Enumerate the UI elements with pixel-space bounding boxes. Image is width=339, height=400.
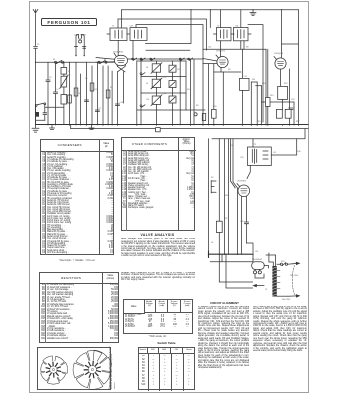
svg-text:S9: S9: [211, 177, 213, 179]
resistor R20: [276, 109, 282, 118]
wire v-108: [107, 66, 109, 125]
resistor R6: [106, 90, 110, 98]
svg-text:R6: R6: [196, 105, 198, 107]
svg-text:C7: C7: [99, 108, 101, 110]
capacitor C3: [43, 113, 47, 115]
wire V1 output: [128, 58, 203, 60]
wire bus to T-D: [240, 10, 242, 28]
ground main: [32, 125, 39, 132]
ground top: [250, 10, 256, 16]
wire band h107: [45, 106, 64, 108]
resistor R18: [216, 221, 222, 232]
wire v-180: [179, 60, 181, 125]
wire T-A to V1: [117, 41, 119, 56]
wire v-214: [213, 64, 215, 125]
wire v-203 low: [202, 59, 204, 125]
svg-text:V5 6X5GT: V5 6X5GT: [252, 259, 263, 261]
label group schematic refs: [37, 26, 300, 302]
mains plug arrow top: [293, 262, 300, 264]
capacitor C19: [245, 222, 249, 224]
switch S4: [132, 58, 137, 60]
coil L8: [151, 63, 162, 74]
wire v-261: [261, 86, 263, 125]
capacitor C10: [116, 104, 120, 106]
wire osc rail2: [140, 60, 142, 125]
wire v-295: [293, 102, 295, 125]
switch S5c: [140, 105, 145, 107]
svg-text:C2: C2: [49, 77, 51, 79]
coil L3 mid: [60, 74, 68, 88]
switch S8: [188, 58, 193, 60]
svg-text:V1 6K8GT: V1 6K8GT: [113, 52, 124, 54]
wire v-224: [222, 72, 224, 125]
fans caption (rotated): [109, 346, 116, 389]
wire v-190: [190, 60, 192, 125]
svg-text:R14: R14: [284, 83, 287, 85]
wire v-69: [69, 62, 71, 125]
svg-text:C16: C16: [262, 83, 265, 85]
wire left drop: [35, 62, 37, 125]
wire v-242: [241, 49, 243, 125]
wire osc h110: [137, 109, 205, 111]
wire v-97: [96, 62, 98, 125]
switch S9 mains: [277, 263, 293, 266]
wire speaker bus: [209, 253, 254, 255]
svg-text:R1: R1: [95, 89, 97, 91]
switch S1: [55, 60, 64, 63]
coil L3: [68, 95, 72, 103]
svg-text:L10: L10: [146, 99, 149, 101]
coil L9: [151, 78, 162, 89]
svg-text:R15: R15: [257, 121, 260, 123]
svg-text:C29: C29: [130, 26, 133, 28]
tuning indicator jack: [74, 35, 85, 57]
valve V1 frequency changer: [114, 53, 128, 66]
wire v-231 diag: [231, 139, 236, 188]
wire osc h76: [141, 76, 186, 78]
wire trans bottom: [277, 295, 288, 297]
main grid bus: [36, 61, 115, 63]
footnote under condensers: [40, 260, 114, 262]
resistor R4: [90, 83, 94, 91]
valve V4 output: [237, 184, 250, 197]
wire v-48: [46, 62, 50, 125]
wire v-123: [123, 72, 125, 103]
wire osc left rail: [136, 61, 138, 125]
svg-text:R9: R9: [228, 69, 230, 71]
switch S2: [98, 60, 107, 63]
wire v-103: [102, 66, 104, 125]
wire v-208: [208, 64, 210, 125]
wire trans top: [266, 253, 276, 266]
wire osc h61: [137, 60, 186, 62]
svg-text:C39: C39: [240, 221, 243, 223]
wire grid line: [146, 49, 190, 51]
top HT bus: [122, 9, 299, 11]
wire h-85: [251, 81, 257, 83]
wire HT right-top: [282, 10, 299, 125]
trimmer C27: [169, 96, 176, 103]
wire V2 cathode: [214, 68, 241, 73]
circuit alignment heading: [209, 301, 240, 305]
wire heater 1: [219, 254, 252, 282]
svg-text:R22: R22: [224, 218, 227, 220]
svg-text:200-220V: 200-220V: [282, 299, 291, 301]
wire v-290: [289, 69, 291, 125]
wire screen line: [203, 48, 266, 50]
svg-text:C36: C36: [297, 151, 300, 153]
svg-text:V4 6V6G: V4 6V6G: [237, 181, 246, 183]
wire v-256: [256, 82, 258, 125]
svg-text:C4: C4: [78, 93, 80, 95]
svg-text:T2: T2: [217, 26, 219, 28]
ground g2: [50, 125, 55, 130]
wire rect to winding: [255, 266, 269, 279]
coil L10: [151, 95, 162, 106]
svg-text:T4: T4: [265, 289, 267, 291]
switch table heading: [138, 341, 195, 345]
capacitor C20: [289, 108, 293, 110]
svg-text:CALL GATE: CALL GATE: [74, 33, 86, 36]
valve base diagram right: [73, 350, 112, 389]
wire v-80: [80, 74, 82, 125]
wire bus to V3: [281, 10, 283, 58]
svg-text:C10: C10: [120, 102, 123, 104]
wire T2 right: [271, 139, 296, 155]
wire bus drop to T-A: [118, 10, 122, 28]
coil L2: [61, 62, 67, 74]
svg-text:L3: L3: [68, 71, 70, 73]
other components table: [121, 137, 196, 231]
wire T2 to V4: [247, 166, 250, 179]
resistors table: [39, 272, 118, 343]
wire band link: [36, 105, 45, 125]
wire v-253 top: [252, 139, 254, 147]
wire L drop: [210, 254, 253, 262]
svg-text:240-250V: 240-250V: [290, 275, 299, 277]
coil L4 low: [61, 87, 67, 125]
wire feedback: [146, 10, 192, 44]
switch table: [138, 347, 195, 390]
svg-text:C8: C8: [177, 69, 179, 71]
wire HT drop: [118, 10, 220, 50]
speaker terminal: [208, 251, 210, 257]
svg-text:R17: R17: [296, 121, 299, 123]
wire v-172: [172, 61, 174, 125]
wire aerial lead-in: [35, 14, 37, 46]
mains plug arrow bottom: [288, 295, 299, 297]
wire v-253 mid: [252, 254, 254, 262]
wire h-102: [262, 101, 294, 103]
wire V2 grid diagonals: [203, 59, 217, 64]
wire r18 down: [218, 233, 220, 255]
wire v-266: [265, 49, 267, 125]
svg-text:C20: C20: [213, 106, 216, 108]
capacitor C1: [34, 47, 38, 49]
wire T-D down: [241, 41, 244, 50]
svg-text:C1: C1: [37, 44, 39, 46]
trimmer C25: [169, 65, 176, 72]
earth return bus: [71, 128, 308, 130]
IF transformer box D: [234, 28, 252, 41]
wire v-250: [250, 82, 252, 125]
rectifier V5: [252, 262, 265, 274]
coupling block C16: [240, 78, 250, 90]
valve V3 detector: [274, 57, 286, 70]
wave band bracket: [211, 181, 216, 194]
wire v-268: [267, 49, 269, 125]
svg-text:R2: R2: [110, 87, 112, 89]
wire v-194: [193, 60, 195, 125]
switch S6: [150, 58, 155, 60]
wire AVC right: [248, 25, 263, 122]
title box FERGUSON 101: [41, 18, 97, 27]
wire v-76: [75, 62, 77, 125]
wire osc h93: [141, 92, 186, 94]
svg-text:C35: C35: [240, 157, 243, 159]
resistor R21: [285, 109, 291, 118]
mains lead dashed: [292, 266, 294, 295]
svg-text:R4: R4: [187, 89, 189, 91]
valve table footnote: [123, 336, 193, 338]
wire v-186: [185, 61, 187, 110]
svg-text:S2: S2: [104, 59, 106, 61]
resistor R13: [212, 109, 217, 118]
IF transformer box A: [107, 28, 130, 41]
wire V3 anode drop: [280, 69, 282, 86]
wire T-B down: [132, 41, 134, 60]
condensers table: [40, 139, 114, 255]
wire v-156: [155, 61, 157, 125]
wire v-86: [86, 62, 88, 125]
IF transformer box B: [130, 28, 147, 41]
wire v-233 diag: [233, 139, 238, 255]
svg-text:R13: R13: [270, 95, 273, 97]
wire h-97: [256, 85, 262, 87]
svg-text:C18: C18: [291, 99, 294, 101]
wire right top link: [212, 129, 305, 139]
svg-text:C34: C34: [230, 145, 233, 147]
IF transformer box C: [214, 28, 235, 41]
wire grid diagonals V1: [96, 58, 115, 63]
svg-text:LS: LS: [211, 242, 214, 244]
resistor R7: [202, 114, 205, 121]
resistor R2: [74, 88, 78, 96]
wire v-117: [117, 72, 119, 125]
wire c19 down: [246, 224, 248, 243]
wire aerial to bus: [35, 49, 37, 63]
svg-text:L2: L2: [57, 89, 59, 91]
svg-text:T3: T3: [254, 144, 256, 146]
wire v-219: [218, 139, 220, 222]
ground g3: [89, 125, 94, 130]
wire v-112: [111, 71, 113, 125]
antenna A: [33, 10, 38, 14]
wire heater 2: [226, 254, 253, 288]
svg-text:C5: C5: [85, 78, 87, 80]
lamp box: [156, 128, 161, 132]
wire v-55: [54, 63, 58, 125]
volume control box: [278, 86, 288, 109]
switch S7: [179, 58, 184, 60]
svg-text:L15: L15: [273, 152, 276, 154]
capacitor C7: [95, 110, 99, 112]
svg-text:C25: C25: [163, 77, 166, 79]
valve analysis paragraph: [121, 238, 196, 271]
wire h-243: [247, 243, 254, 253]
switch S5: [140, 58, 145, 60]
resistor R16: [266, 98, 271, 107]
wire V4 legs: [242, 196, 247, 254]
svg-text:S1: S1: [53, 59, 55, 61]
svg-text:V2 6K7G: V2 6K7G: [216, 51, 225, 53]
wire v-44: [44, 105, 46, 121]
svg-text:L9: L9: [146, 83, 148, 85]
coil L5 iron core: [35, 112, 39, 117]
wire T-C down: [220, 41, 222, 57]
valve analysis heading: [120, 233, 195, 237]
fans box: [37, 347, 112, 391]
switch S3: [35, 103, 45, 107]
output transformer T2: [248, 147, 272, 166]
svg-text:R11: R11: [252, 79, 255, 81]
svg-text:R20: R20: [225, 195, 228, 197]
mains transformer T1 winding: [272, 266, 280, 297]
circuit alignment right column: [253, 306, 307, 364]
capacitor C5: [85, 100, 89, 102]
circuit alignment left column: [198, 306, 250, 375]
wire tap arrow: [253, 285, 264, 287]
svg-text:T1: T1: [112, 26, 114, 28]
wire v-226: [224, 139, 226, 255]
wire v-208 lower: [208, 139, 210, 253]
valve base diagram left: [40, 350, 112, 389]
lamp circle: [194, 113, 197, 116]
wire bus link: [70, 125, 72, 129]
chassis bus: [36, 124, 309, 126]
svg-text:C26: C26: [163, 93, 166, 95]
svg-text:C15: C15: [244, 76, 247, 78]
svg-text:L16: L16: [255, 251, 258, 253]
wire v-92: [91, 66, 93, 125]
svg-text:L8: L8: [146, 67, 148, 69]
switch S5b: [140, 73, 145, 75]
svg-text:C11: C11: [208, 47, 211, 49]
valve V2 IF amplifier: [216, 55, 228, 68]
svg-text:C31: C31: [235, 26, 238, 28]
valve voltage table: [123, 299, 193, 335]
trimmer C26: [169, 81, 176, 88]
svg-text:S10: S10: [281, 261, 284, 263]
svg-text:V3 6Q7G: V3 6Q7G: [274, 53, 283, 55]
wire AVC line: [136, 25, 203, 59]
heater cross X V1: [117, 65, 126, 72]
svg-text:R8: R8: [246, 47, 248, 49]
